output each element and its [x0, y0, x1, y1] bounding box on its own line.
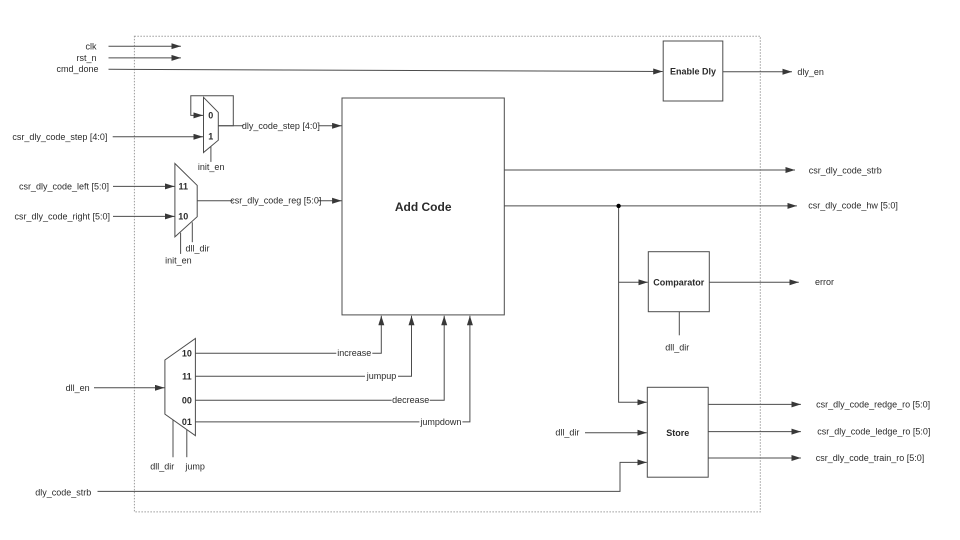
- svg-text:csr_dly_code_train_ro [5:0]: csr_dly_code_train_ro [5:0]: [816, 453, 925, 463]
- svg-text:cmd_done: cmd_done: [56, 64, 98, 74]
- svg-text:jump: jump: [184, 461, 205, 471]
- svg-text:rst_n: rst_n: [76, 53, 96, 63]
- edge label csr_dly_code_reg [5:0]: [230, 195, 321, 206]
- svg-text:0: 0: [208, 110, 213, 120]
- svg-text:csr_dly_code_step [4:0]: csr_dly_code_step [4:0]: [12, 132, 107, 142]
- svg-text:dll_dir: dll_dir: [665, 342, 689, 352]
- wire increase demux to Add Code: [195, 316, 381, 353]
- edge label jumpup: [365, 371, 398, 382]
- wire dly_en output: [723, 71, 792, 73]
- wire clk: [109, 45, 181, 47]
- svg-text:csr_dly_code_redge_ro [5:0]: csr_dly_code_redge_ro [5:0]: [816, 399, 930, 409]
- block Store: [647, 387, 708, 477]
- svg-text:csr_dly_code_left [5:0]: csr_dly_code_left [5:0]: [19, 181, 109, 191]
- block Add Code: [342, 98, 504, 315]
- block Comparator: [648, 252, 709, 312]
- svg-text:01: 01: [182, 417, 192, 427]
- svg-text:Enable Dly: Enable Dly: [670, 67, 716, 77]
- wire dll_en input to demux M3: [94, 387, 165, 389]
- svg-text:00: 00: [182, 395, 192, 405]
- wire dll_dir control stub mux M2: [191, 222, 193, 242]
- wire jump control stub demux M3: [186, 430, 188, 457]
- wire init_en control stub mux M2: [180, 233, 182, 254]
- svg-text:11: 11: [179, 182, 189, 192]
- wire csr_dly_code_reg [5:0] mux M2 to Add Code: [197, 200, 341, 202]
- svg-text:Comparator: Comparator: [653, 277, 705, 287]
- wire csr_dly_code_redge_ro output: [708, 403, 801, 405]
- svg-text:error: error: [815, 277, 834, 287]
- svg-text:dll_dir: dll_dir: [555, 428, 579, 438]
- wire csr_dly_code_left input to mux M2: [113, 185, 175, 187]
- wire jumpup demux to Add Code: [195, 316, 411, 376]
- wire csr_dly_code_strb output from Add Code: [504, 169, 795, 171]
- wire cmd_done to Enable Dly: [109, 69, 663, 71]
- svg-text:10: 10: [178, 212, 188, 222]
- mux M2 (left/right mux, inputs 11/10): [175, 164, 197, 237]
- svg-text:csr_dly_code_hw [5:0]: csr_dly_code_hw [5:0]: [808, 201, 898, 211]
- wire csr_dly_code_hw output from Add Code: [504, 205, 797, 207]
- block Enable Dly: [663, 41, 723, 101]
- svg-text:csr_dly_code_right [5:0]: csr_dly_code_right [5:0]: [14, 211, 110, 221]
- svg-text:Store: Store: [666, 428, 689, 438]
- svg-text:10: 10: [182, 349, 192, 359]
- demux M3 (outputs 10/11/00/01): [165, 339, 196, 436]
- svg-text:jumpdown: jumpdown: [419, 417, 461, 427]
- wire dll_dir input to Store: [585, 432, 647, 434]
- svg-text:jumpup: jumpup: [366, 371, 397, 381]
- svg-text:dly_code_strb: dly_code_strb: [35, 487, 91, 497]
- svg-text:Add Code: Add Code: [395, 200, 452, 214]
- wire feedback loop mux M1 output to input 0: [191, 96, 234, 126]
- edge label jumpdown: [419, 416, 462, 427]
- wire dly_code_strb to Store input 3: [98, 462, 647, 491]
- svg-text:11: 11: [182, 371, 192, 381]
- wire branch to Comparator input: [619, 281, 648, 283]
- svg-text:dll_dir: dll_dir: [185, 244, 209, 254]
- edge label dly_code_step [4:0]: [242, 120, 320, 131]
- svg-text:clk: clk: [86, 41, 97, 51]
- svg-text:decrease: decrease: [392, 395, 429, 405]
- svg-text:1: 1: [208, 132, 213, 142]
- edge label decrease: [392, 395, 430, 406]
- junction dot on csr_dly_code_hw net: [616, 204, 620, 208]
- svg-text:dly_en: dly_en: [797, 67, 824, 77]
- wire csr_dly_code_right input to mux M2: [113, 215, 175, 217]
- svg-text:csr_dly_code_reg [5:0]: csr_dly_code_reg [5:0]: [230, 196, 321, 206]
- svg-text:csr_dly_code_strb: csr_dly_code_strb: [809, 165, 882, 175]
- svg-text:increase: increase: [337, 348, 371, 358]
- svg-text:init_en: init_en: [198, 162, 225, 172]
- wire dly_code_step [4:0] mux M1 to Add Code: [218, 125, 341, 127]
- wire decrease demux to Add Code: [195, 316, 444, 400]
- wire csr_dly_code_step input to mux M1: [113, 136, 203, 138]
- module boundary (dashed): [134, 36, 760, 512]
- wire jumpdown demux to Add Code: [195, 316, 470, 422]
- svg-text:dly_code_step [4:0]: dly_code_step [4:0]: [242, 121, 320, 131]
- wire dll_dir control stub Comparator: [678, 312, 680, 336]
- svg-text:dll_dir: dll_dir: [150, 461, 174, 471]
- mux M1 (init mux, inputs 0/1): [204, 97, 219, 152]
- svg-text:init_en: init_en: [165, 255, 192, 265]
- edge label increase: [336, 348, 372, 359]
- wire dll_dir control stub demux M3: [172, 420, 174, 457]
- wire error output from Comparator: [709, 281, 799, 283]
- wire rst_n: [109, 57, 181, 59]
- svg-text:csr_dly_code_ledge_ro [5:0]: csr_dly_code_ledge_ro [5:0]: [817, 427, 930, 437]
- wire csr_dly_code_train_ro output: [708, 457, 801, 459]
- wire init_en control stub mux M1: [210, 144, 212, 162]
- svg-text:dll_en: dll_en: [66, 383, 90, 393]
- wire csr_dly_code_ledge_ro output: [708, 431, 801, 433]
- wire net hw vertical to Store input 1: [619, 206, 647, 402]
